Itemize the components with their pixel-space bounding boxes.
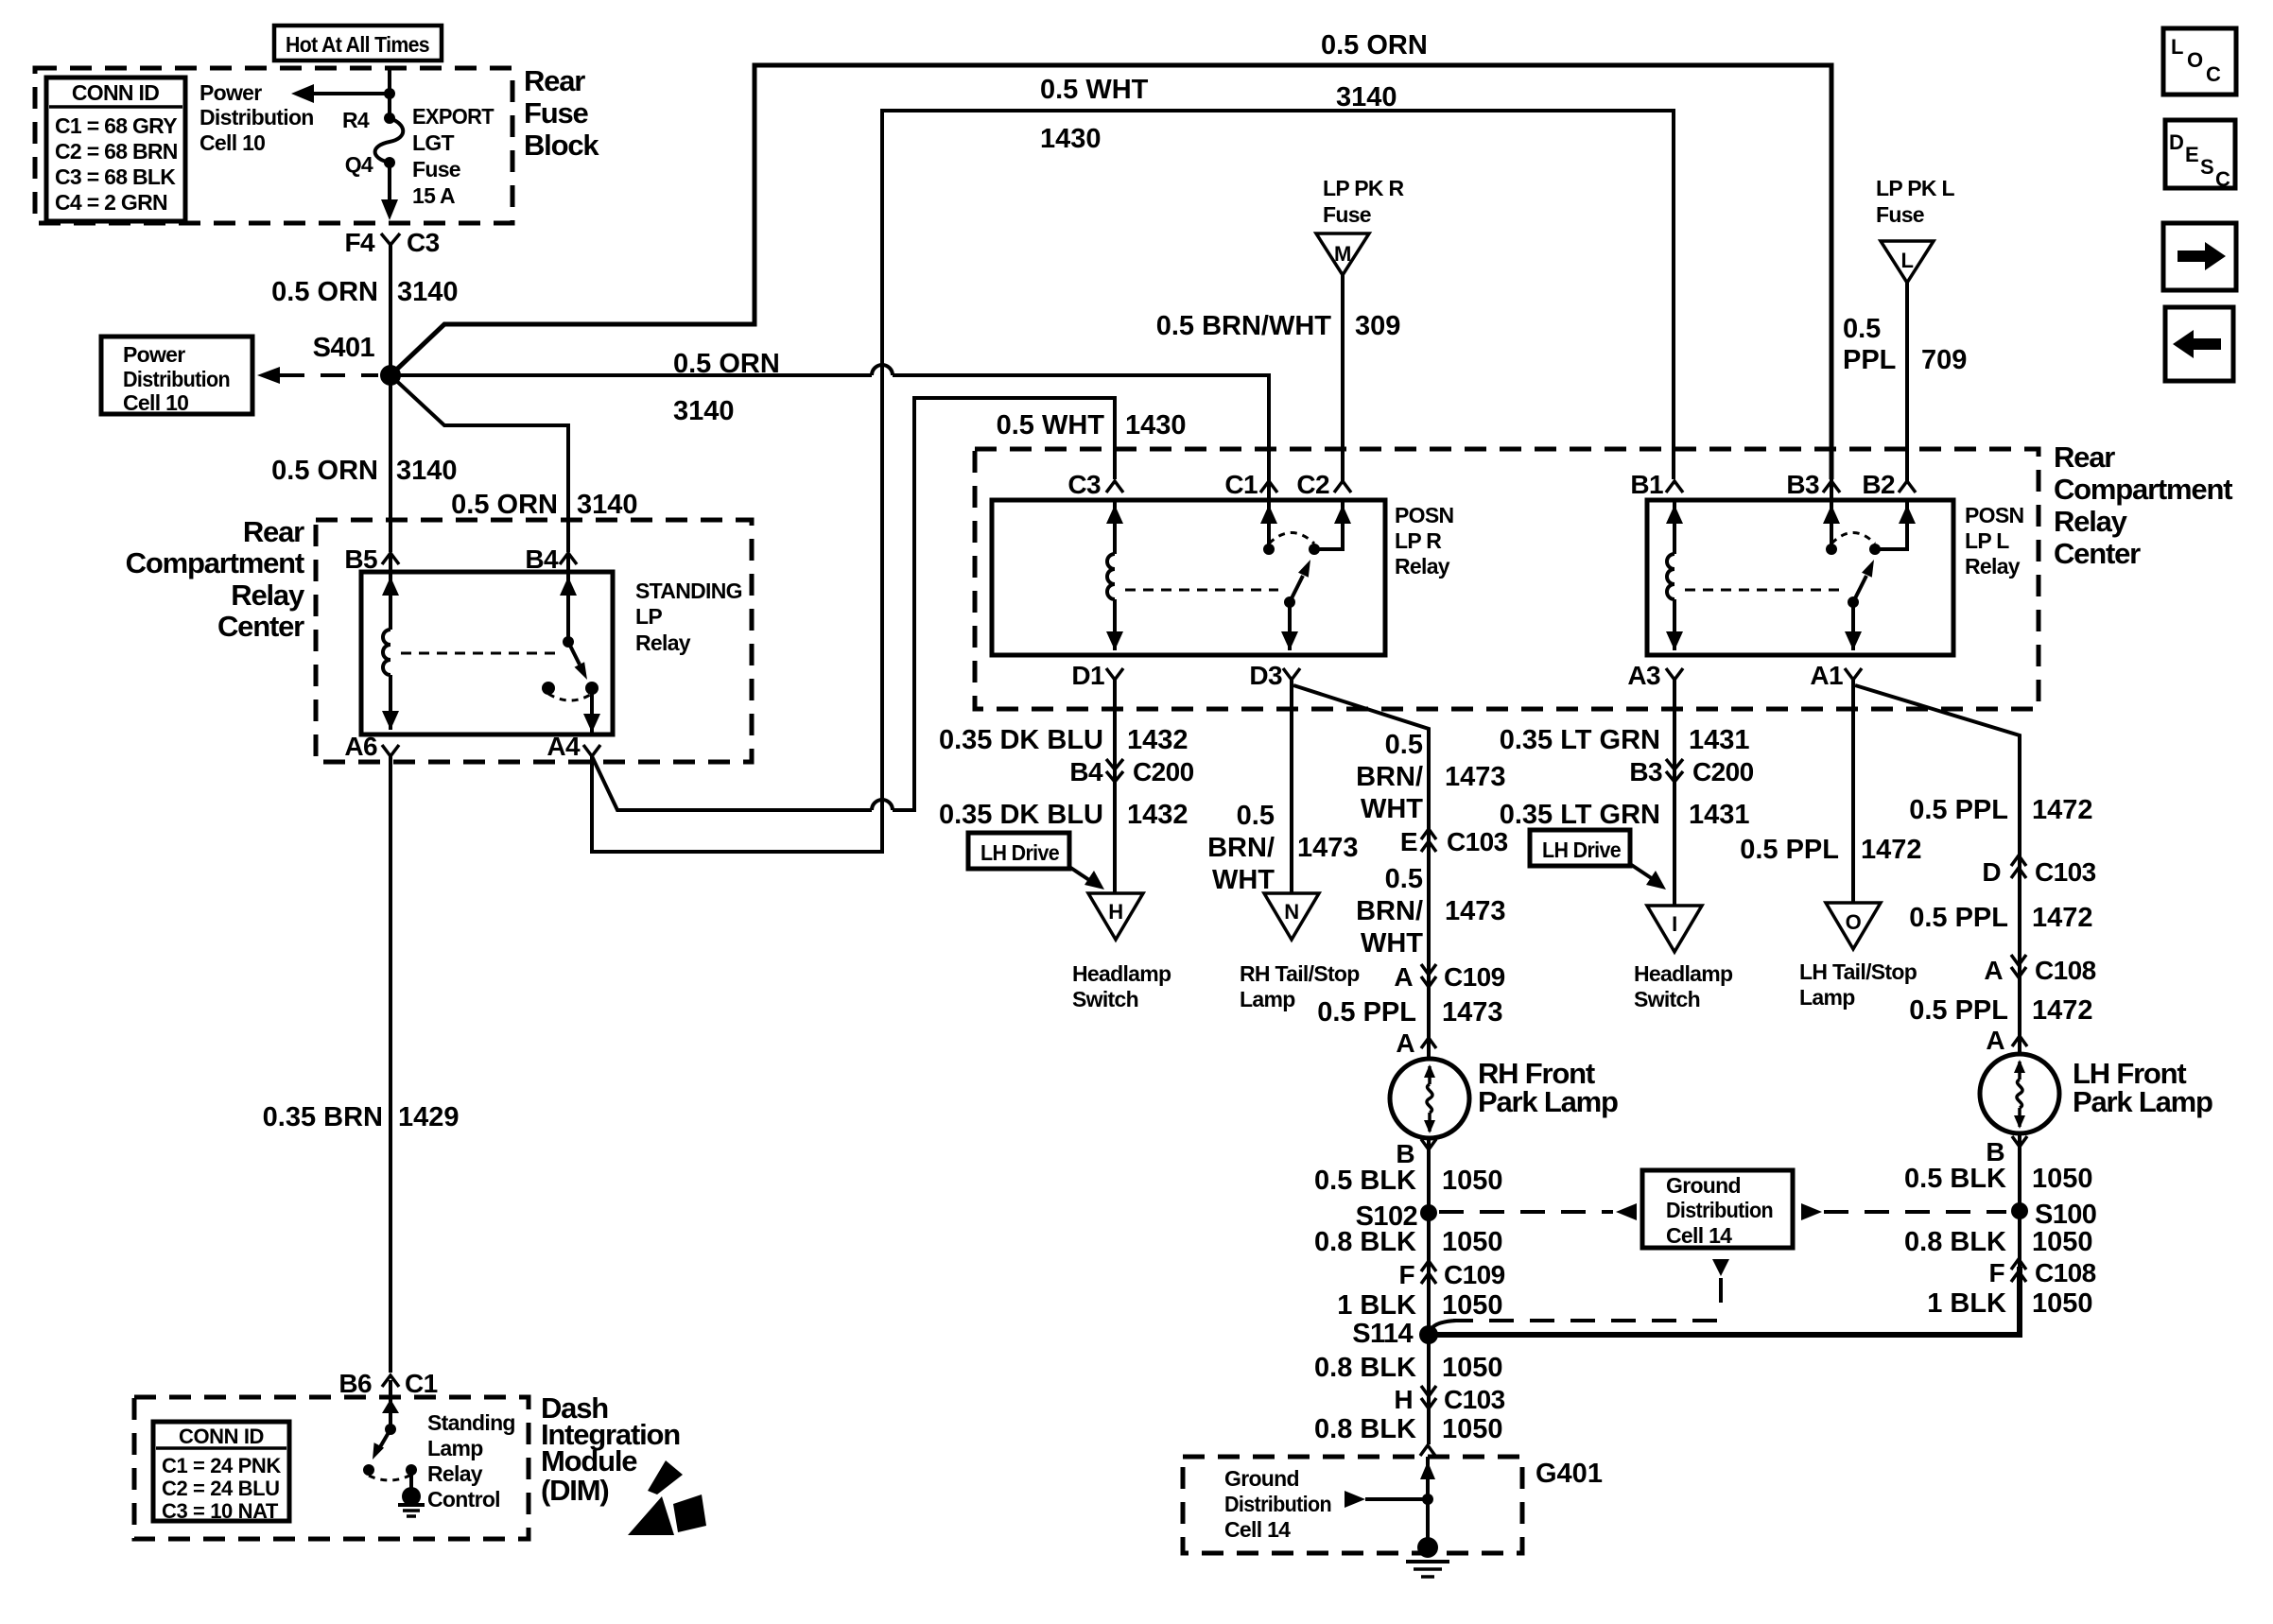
svg-text:Center: Center [217,610,304,643]
wire label 0.5 ORN 3140 (to B4) [451,490,637,520]
svg-text:1472: 1472 [1861,835,1922,865]
svg-text:Ground: Ground [1666,1173,1741,1198]
pin C2 [1296,470,1351,499]
ground stem and symbol G401 [1406,1457,1449,1577]
svg-text:A: A [1394,962,1413,992]
wire: hot feed into fuse block [388,69,391,118]
svg-text:Fuse: Fuse [524,96,589,130]
node S102 [1356,1201,1437,1232]
svg-text:1050: 1050 [1442,1227,1503,1257]
wire: 0.5 PPL 709 from fuse L to B2 [1905,283,1909,481]
svg-text:0.5 BRN/WHT: 0.5 BRN/WHT [1156,311,1332,341]
svg-text:0.5: 0.5 [1385,730,1423,760]
svg-text:Power: Power [123,342,185,367]
destination triangle I [1647,906,1702,952]
svg-text:Rear: Rear [243,515,304,548]
svg-text:R4: R4 [342,108,370,132]
relay coil (standing lp relay) [382,553,399,730]
wire: 0.5 WHT 1430 from A4 down and across then up to B1 of POSN LP L relay [592,111,1674,852]
svg-text:C109: C109 [1444,1260,1505,1289]
svg-text:B3: B3 [1629,757,1662,786]
svg-text:Power: Power [200,80,262,105]
svg-text:BRN/: BRN/ [1356,762,1423,792]
connector F / C108 [1988,1258,2095,1287]
svg-text:0.5: 0.5 [1237,801,1275,831]
svg-text:S: S [2200,155,2213,179]
svg-text:C103: C103 [1447,827,1508,856]
svg-text:STANDING: STANDING [635,579,742,603]
svg-text:1050: 1050 [1442,1290,1503,1321]
ground at relay control [398,1487,425,1516]
svg-text:S114: S114 [1352,1319,1413,1349]
svg-text:Relay: Relay [427,1461,483,1486]
svg-text:0.8 BLK: 0.8 BLK [1314,1414,1416,1444]
svg-text:S100: S100 [2035,1200,2096,1230]
svg-text:Q4: Q4 [345,152,373,177]
svg-text:0.5 ORN: 0.5 ORN [271,277,378,307]
svg-text:C1 = 24 PNK: C1 = 24 PNK [162,1454,281,1477]
svg-text:1050: 1050 [2032,1164,2093,1194]
ground distribution cell 14 reference (G401) [1224,1466,1424,1542]
nav box DESC [2165,120,2235,191]
wire: 1 BLK 1050 bus from S114 right to LH chain [1429,1267,2020,1335]
wire: 0.35 LT GRN 1431 from A3 down to headlamp switch I [1673,680,1676,906]
pin A1 [1810,661,1862,690]
pin B1 [1630,470,1683,499]
svg-text:CONN ID: CONN ID [179,1425,264,1448]
svg-text:POSN: POSN [1965,503,2023,527]
svg-text:0.5 ORN: 0.5 ORN [1321,30,1428,60]
wire: 0.5 ORN 3140 from S401 right to C1 of POSN LP R relay (hops 1430 wire) [390,365,1269,479]
esd sensitive symbol [628,1460,706,1535]
svg-text:0.5 ORN: 0.5 ORN [271,456,378,486]
svg-text:1473: 1473 [1445,762,1506,792]
svg-text:C108: C108 [2035,1258,2096,1287]
svg-text:C: C [2215,167,2230,191]
fuse LP PK L Fuse (L) [1876,176,1955,283]
svg-text:309: 309 [1355,311,1400,341]
destination triangle N [1264,893,1319,940]
connector A / C108 [1984,955,2095,985]
node: tap to power distribution [384,88,395,99]
wire: 0.5 BLK 1050 from lamp B down to S102 [1427,1138,1431,1444]
wire: fuse output down to F4 [381,163,398,220]
svg-text:C108: C108 [2035,956,2096,985]
svg-text:Distribution: Distribution [1666,1198,1773,1222]
lamp RH Front Park Lamp [1390,1059,1469,1138]
pin B4 [525,544,577,574]
svg-text:1050: 1050 [1442,1353,1503,1383]
wire: 0.35 DK BLU 1432 from D1 down to headlamp switch H [1113,680,1117,893]
pin B5 [344,544,399,574]
wire: dashed ground distribution box to S100 [1801,1203,2006,1220]
svg-text:Cell 10: Cell 10 [123,390,188,415]
reference flag LH Drive (right) [1530,830,1666,890]
svg-text:0.5 WHT: 0.5 WHT [1040,75,1149,105]
component name: Rear Compartment Relay Center (right) [2054,441,2232,570]
wire label 0.8 BLK 1050 (below S114) [1314,1353,1503,1383]
wire: 0.5 ORN 3140 from S401 down to B5 of standing lp relay [389,375,392,552]
svg-text:Fuse: Fuse [412,157,460,181]
svg-text:C200: C200 [1133,757,1194,786]
component name: RH Front Park Lamp [1478,1057,1618,1118]
svg-text:Lamp: Lamp [1240,987,1295,1011]
component label: LH Tail/Stop Lamp [1799,959,1917,1010]
fuse LP PK R Fuse (M) [1316,176,1405,275]
svg-text:S401: S401 [313,333,375,363]
wire: 0.5 PPL 1472 from A1 down to LH tail/stop lamp O [1851,680,1855,903]
rear compartment relay center dashed outline (right) [975,449,2039,709]
wire label 0.5 BRN/WHT 309 [1156,311,1401,341]
connector B6 / C1 [338,1369,437,1398]
svg-text:Switch: Switch [1072,987,1138,1011]
svg-text:0.5 PPL: 0.5 PPL [1909,903,2008,933]
relay coil (posn lp l) [1666,500,1683,650]
node S401 [313,333,401,386]
svg-text:A: A [1986,1026,2004,1055]
svg-text:L: L [1900,249,1913,272]
svg-text:C109: C109 [1444,962,1505,992]
wire label 0.5 PPL 1472 (O chain) [1740,835,1921,865]
wire label 0.5 PPL 1472 (above D) [1909,795,2092,825]
svg-text:Fuse: Fuse [1876,202,1924,227]
svg-text:M: M [1334,242,1351,266]
relay switch (posn lp l) [1823,479,1916,650]
pin B of LH front park lamp [1986,1136,2027,1166]
svg-text:E: E [2185,143,2198,166]
nav box left arrow [2165,307,2233,381]
wire label 0.5 BLK 1050 (LH) [1904,1164,2093,1194]
svg-text:1 BLK: 1 BLK [1337,1290,1416,1321]
svg-text:C3: C3 [1067,470,1101,499]
svg-text:C3 = 10 NAT: C3 = 10 NAT [162,1499,279,1523]
relay switch (posn lp r) [1260,375,1351,650]
wire: 0.35 BRN 1429 from A6 down to DIM B6/C1 [389,756,392,1373]
svg-text:Relay: Relay [231,579,305,612]
dash integration module dashed outline [134,1397,529,1539]
svg-text:PPL: PPL [1843,345,1896,375]
pin A3 [1627,661,1683,690]
wire label 0.5 BRN/WHT 1473 (above E) [1356,730,1505,824]
svg-text:C: C [2206,62,2221,86]
svg-text:A: A [1396,1028,1414,1058]
svg-text:1472: 1472 [2032,903,2093,933]
reference flag LH Drive (left) [968,833,1104,890]
svg-text:1 BLK: 1 BLK [1927,1288,2006,1319]
connector B3 / C200 [1629,757,1753,786]
relay control link (dashed) [401,652,560,655]
wire label 0.5 WHT 1430 (to C3) [997,410,1187,441]
ground G401 dashed outline [1183,1457,1522,1553]
svg-text:1050: 1050 [2032,1227,2093,1257]
connector E / C103 [1400,827,1508,856]
wire label 0.35 LT GRN 1431 (below C200) [1500,800,1750,830]
fuse EXPORT LGT Fuse 15 A [375,112,404,168]
wire label 0.5 PPL 1472 (below A C108) [1909,995,2092,1026]
svg-text:Park Lamp: Park Lamp [1478,1085,1618,1118]
component label: RH Tail/Stop Lamp [1240,961,1360,1011]
svg-text:C2 = 68 BRN: C2 = 68 BRN [55,139,178,164]
svg-text:WHT: WHT [1361,794,1423,824]
wire: dashed ground distribution box down to S114 [1431,1259,1729,1330]
svg-text:1429: 1429 [398,1102,460,1132]
nav box right arrow [2163,223,2236,290]
component name: Dash Integration Module (DIM) [541,1391,680,1507]
svg-text:LP PK L: LP PK L [1876,176,1955,200]
connector A / C109 [1394,962,1504,992]
svg-text:Center: Center [2054,537,2141,570]
rear fuse block dashed outline [35,68,512,223]
wire label 0.35 BRN 1429 [263,1102,460,1132]
svg-text:0.5 PPL: 0.5 PPL [1317,997,1416,1028]
svg-text:C2 = 24 BLU: C2 = 24 BLU [162,1477,280,1500]
destination triangle H [1088,893,1143,940]
connector D / C103 [1982,855,2095,887]
wire label 0.35 DK BLU 1432 (below C200) [939,800,1189,830]
pin B of RH front park lamp [1396,1139,1436,1168]
svg-text:F4: F4 [345,228,376,257]
svg-text:Lamp: Lamp [427,1436,483,1460]
component name: Rear Compartment Relay Center (left) [126,515,305,643]
standing lamp relay control switch inside DIM [363,1380,417,1490]
wire label 0.5 BRN/WHT 1473 (below E) [1356,864,1505,959]
svg-text:0.5 PPL: 0.5 PPL [1740,835,1839,865]
svg-text:LP R: LP R [1395,528,1442,553]
wire label 1 BLK 1050 (LH) [1927,1288,2092,1319]
wire label 0.8 BLK 1050 [1314,1227,1503,1257]
svg-text:0.35 LT GRN: 0.35 LT GRN [1500,800,1660,830]
svg-text:A3: A3 [1627,661,1660,690]
wire: 0.5 BLK 1050 from lamp B down to S100 and on to S114 bus [2018,1133,2021,1335]
wire: 0.5 BRN/WHT 1473 from D3 down to RH tail/stop lamp N [1290,680,1293,893]
wire: 0.5 WHT 1430 from A4 via loop up to C3 of POSN LP R relay (hops vertical) [592,398,1115,810]
wire label 0.8 BLK 1050 (LH) [1904,1227,2093,1257]
wire label 0.5 PPL 709 [1843,314,1967,375]
svg-text:1430: 1430 [1125,410,1187,441]
svg-text:Distribution: Distribution [200,105,314,130]
svg-text:B3: B3 [1786,470,1819,499]
svg-text:Cell 14: Cell 14 [1666,1223,1732,1248]
svg-text:L: L [2171,35,2183,59]
svg-text:C4 = 2 GRN: C4 = 2 GRN [55,190,167,215]
label: Standing Lamp Relay Control [427,1410,515,1512]
svg-text:0.5: 0.5 [1843,314,1881,344]
pin C1 [1224,470,1277,499]
component name: POSN LP R Relay [1395,503,1453,579]
svg-text:0.8 BLK: 0.8 BLK [1314,1227,1416,1257]
svg-text:A4: A4 [547,732,581,761]
wire label 1 BLK 1050 [1337,1290,1502,1321]
wire label 0.5 ORN 3140 (to B5) [271,456,457,486]
svg-text:B2: B2 [1862,470,1895,499]
wire: 0.5 ORN 3140 from F4/C3 down to S401 [389,245,392,375]
connector B4 / C200 [1069,757,1193,786]
svg-text:I: I [1672,912,1677,936]
svg-text:C2: C2 [1296,470,1329,499]
pin A4 [547,732,600,761]
svg-text:Relay: Relay [635,631,691,655]
svg-text:A1: A1 [1810,661,1843,690]
svg-text:Ground: Ground [1224,1466,1299,1491]
svg-text:Headlamp: Headlamp [1634,961,1733,986]
svg-text:Park Lamp: Park Lamp [2073,1085,2212,1118]
svg-text:A6: A6 [344,732,377,761]
svg-text:709: 709 [1921,345,1967,375]
svg-text:Control: Control [427,1487,500,1512]
svg-text:Relay: Relay [2054,505,2128,538]
wire: 0.5 BRN/WHT 309 from fuse M to C2 [1341,275,1345,481]
svg-text:Cell 14: Cell 14 [1224,1517,1291,1542]
svg-text:1431: 1431 [1689,725,1750,755]
svg-text:Distribution: Distribution [123,367,230,391]
svg-text:RH Tail/Stop: RH Tail/Stop [1240,961,1360,986]
power distribution cell 10 reference box (left) [101,337,280,415]
nav box LOC [2163,28,2236,95]
relay coil (posn lp r) [1106,500,1123,650]
wire label 0.5 BRN/WHT 1473 (N chain) [1207,801,1358,895]
fuse value label [412,104,495,208]
wire: 0.5 ORN 3140 from S401 down-right to B4 of standing lp relay [390,375,568,552]
pin D3 [1249,661,1300,690]
component name: POSN LP L Relay [1965,503,2023,579]
pin D1 [1071,661,1123,690]
svg-text:C103: C103 [2035,857,2096,887]
svg-text:0.35 LT GRN: 0.35 LT GRN [1500,725,1660,755]
svg-text:Rear: Rear [524,64,585,97]
svg-text:POSN: POSN [1395,503,1453,527]
svg-text:15 A: 15 A [412,183,455,208]
svg-text:Compartment: Compartment [126,546,304,579]
connector F / C109 [1398,1260,1504,1289]
svg-text:1050: 1050 [1442,1414,1503,1444]
wire label 0.8 BLK 1050 (to G401) [1314,1414,1503,1444]
svg-text:B1: B1 [1630,470,1663,499]
svg-text:B: B [1396,1139,1414,1168]
svg-text:C1: C1 [405,1369,438,1398]
wire label 0.35 LT GRN 1431 (above C200) [1500,725,1750,755]
svg-text:0.35 DK BLU: 0.35 DK BLU [939,725,1103,755]
wire: 0.5 ORN 3140 from S401 up-right to B3 of POSN LP L relay [390,65,1831,479]
pin C3 [1067,470,1123,499]
rear compartment relay center dashed outline (left) [316,520,752,762]
svg-text:0.5 PPL: 0.5 PPL [1909,995,2008,1026]
svg-text:Hot At All Times: Hot At All Times [286,32,429,57]
svg-text:0.35 BRN: 0.35 BRN [263,1102,383,1132]
svg-text:B: B [1986,1137,2004,1166]
svg-text:C3 = 68 BLK: C3 = 68 BLK [55,164,176,189]
svg-text:G401: G401 [1536,1459,1603,1489]
svg-text:B4: B4 [525,544,559,574]
svg-text:LP PK R: LP PK R [1323,176,1405,200]
pin A6 [344,732,399,761]
svg-text:EXPORT: EXPORT [412,104,495,129]
svg-text:C103: C103 [1444,1385,1505,1414]
svg-text:C200: C200 [1692,757,1754,786]
CONN ID table (DIM) [153,1422,289,1523]
svg-text:1473: 1473 [1442,997,1503,1028]
node S114 [1352,1319,1438,1349]
svg-text:O: O [2187,48,2203,72]
svg-text:C1 = 68 GRY: C1 = 68 GRY [55,113,177,138]
node S100 [2011,1200,2096,1230]
wire: dashed to power distribution cell 10 [280,373,378,377]
destination triangle O [1826,903,1881,949]
svg-text:A: A [1984,956,2003,985]
svg-text:0.8 BLK: 0.8 BLK [1314,1353,1416,1383]
svg-text:LGT: LGT [412,130,455,155]
wire label 0.5 PPL 1473 [1317,997,1502,1028]
svg-text:O: O [1846,910,1862,934]
CONN ID table [46,78,185,221]
svg-text:Standing: Standing [427,1410,515,1435]
relay control link dashed (posn lp r) [1125,589,1278,592]
component label: Headlamp Switch (H) [1072,961,1171,1011]
svg-text:1473: 1473 [1445,896,1506,926]
svg-text:C3: C3 [407,228,440,257]
ground distribution cell 14 reference box (middle) [1642,1170,1793,1248]
svg-text:LP L: LP L [1965,528,2009,553]
svg-text:H: H [1108,900,1123,924]
svg-text:WHT: WHT [1361,928,1423,959]
svg-text:Block: Block [524,129,599,162]
svg-text:H: H [1394,1385,1413,1414]
power distribution cell 10 reference (top) [200,80,314,155]
wire: 0.5 BRN/WHT 1473 from D3 diagonal down to E C103 and on to RH park lamp [1293,685,1429,1061]
svg-text:0.8 BLK: 0.8 BLK [1904,1227,2006,1257]
pin A of RH front park lamp [1396,1028,1436,1058]
svg-text:1050: 1050 [2032,1288,2093,1319]
svg-text:0.5: 0.5 [1385,864,1423,894]
connector F4 / C3 [345,228,440,257]
svg-text:D: D [1982,857,2001,887]
svg-text:F: F [1988,1258,2004,1287]
svg-text:1432: 1432 [1127,800,1189,830]
relay POSN LP L Relay box [1647,500,1953,655]
svg-text:0.5 ORN: 0.5 ORN [451,490,558,520]
svg-text:CONN ID: CONN ID [72,80,159,105]
wire label 0.5 ORN 3140 (below F4) [271,277,458,307]
wire: dashed S102 to ground distribution box [1439,1203,1637,1220]
svg-text:LH Drive: LH Drive [1542,838,1621,862]
svg-text:1472: 1472 [2032,995,2093,1026]
svg-text:N: N [1284,900,1299,924]
svg-text:C1: C1 [1224,470,1258,499]
svg-text:Module: Module [541,1444,637,1477]
svg-text:D1: D1 [1071,661,1104,690]
svg-text:1431: 1431 [1689,800,1750,830]
svg-text:0.5 WHT: 0.5 WHT [997,410,1105,441]
svg-text:0.5 BLK: 0.5 BLK [1314,1166,1416,1196]
svg-text:0.35 DK BLU: 0.35 DK BLU [939,800,1103,830]
svg-text:0.5 PPL: 0.5 PPL [1909,795,2008,825]
wire: arrow to power distribution cell 10 [291,84,390,103]
svg-text:0.5 BLK: 0.5 BLK [1904,1164,2006,1194]
wire label 0.5 PPL 1472 (below D) [1909,903,2092,933]
component label: Headlamp Switch (I) [1634,961,1733,1011]
svg-text:F: F [1398,1260,1414,1289]
svg-text:Rear: Rear [2054,441,2115,474]
relay POSN LP R Relay box [992,500,1385,655]
relay STANDING LP Relay box [361,572,613,734]
pin B2 [1862,470,1916,499]
svg-text:3140: 3140 [577,490,638,520]
svg-text:WHT: WHT [1212,865,1275,895]
svg-text:Compartment: Compartment [2054,473,2232,506]
svg-text:B5: B5 [344,544,377,574]
power label box Hot At All Times [274,26,442,60]
component name: LH Front Park Lamp [2073,1057,2212,1118]
svg-text:B4: B4 [1069,757,1103,786]
